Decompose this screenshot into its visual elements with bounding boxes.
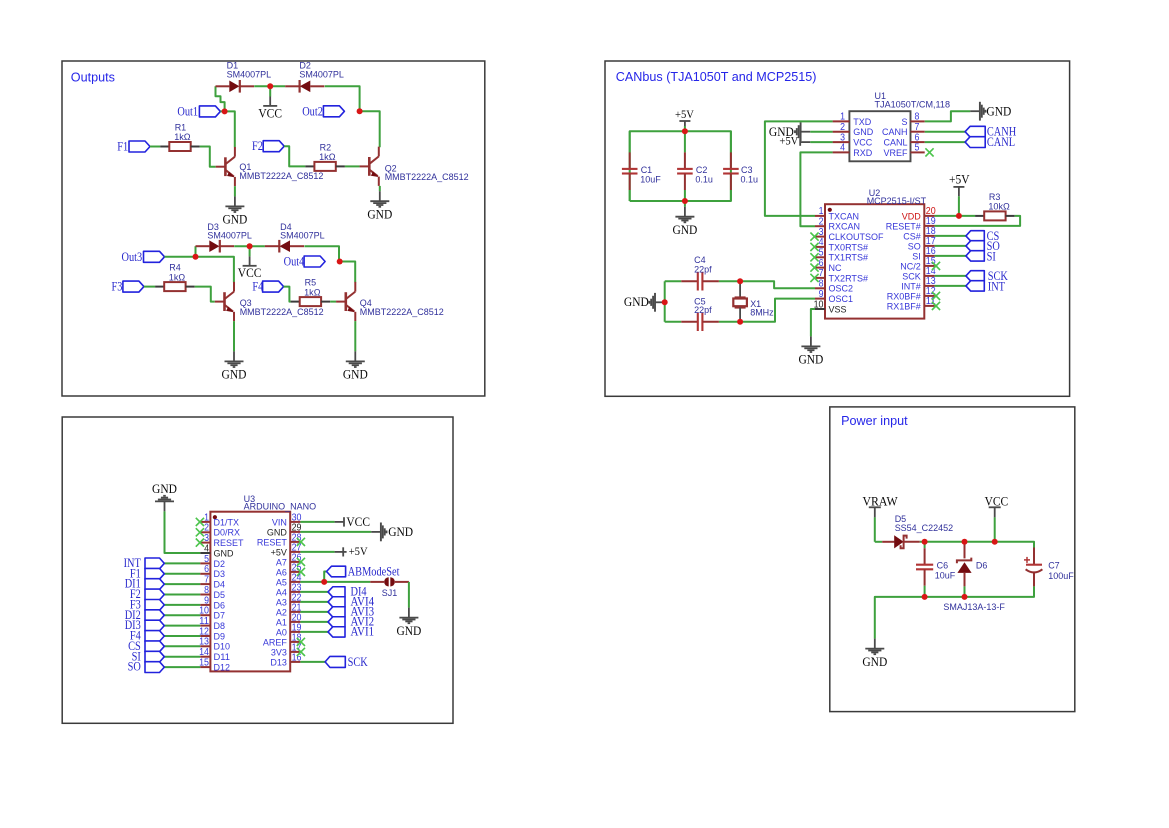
svg-text:GND: GND [222,368,247,382]
svg-text:5: 5 [204,554,209,565]
label DI3 [145,620,164,631]
svg-text:AVI1: AVI1 [351,624,375,639]
junction OSC2 [737,278,743,284]
svg-text:Outputs: Outputs [71,70,115,84]
svg-text:10uF: 10uF [935,571,956,582]
transistor Q2 [360,147,379,186]
svg-text:VSS: VSS [829,304,847,315]
junction GND left [662,299,668,305]
svg-text:Out3: Out3 [122,249,143,264]
svg-text:1kΩ: 1kΩ [169,272,185,283]
ground [225,196,244,212]
wire [345,165,360,167]
svg-text:RXCAN: RXCAN [829,222,861,233]
wire [233,321,235,351]
label F2 [263,141,284,152]
wire VDD [935,215,976,217]
svg-text:0.1u: 0.1u [695,175,713,186]
wire [875,541,882,543]
svg-text:F1: F1 [117,139,128,154]
label F3 [123,281,144,292]
label SCK bottom [325,656,345,667]
svg-text:3: 3 [204,533,209,544]
svg-text:TX0RTS#: TX0RTS# [829,242,869,253]
wire [935,275,966,277]
wire [164,625,200,627]
section box Power input [830,407,1075,712]
wire [284,287,291,302]
svg-text:1kΩ: 1kΩ [304,287,320,298]
capacitor C2 [677,131,693,201]
svg-text:RX1BF#: RX1BF# [887,301,922,312]
label F3 [145,600,164,611]
wire [935,255,966,257]
capacitor C7 polarized [1024,548,1042,587]
svg-text:MMBT2222A_C8512: MMBT2222A_C8512 [240,307,324,318]
svg-text:SS54_C22452: SS54_C22452 [895,523,954,534]
section box Arduino [62,417,453,723]
wire [164,635,200,637]
svg-text:4: 4 [819,237,824,248]
svg-text:10kΩ: 10kΩ [988,202,1009,213]
label CS [145,641,164,652]
label SO [966,241,984,251]
resistor R2 [305,162,345,171]
svg-text:GND: GND [862,655,887,669]
wire [874,517,876,541]
wire [164,645,200,647]
wire [164,604,200,606]
svg-text:VCC: VCC [985,494,1009,508]
diode D5 schottky [882,535,920,548]
resistor R1 [160,142,200,151]
wire [254,85,285,87]
svg-text:4: 4 [840,143,845,154]
svg-text:D8: D8 [214,621,226,632]
label F4 [263,281,284,292]
junction Out3 [193,254,199,260]
junction Out1 [222,108,228,114]
wire R3 to RESET# [935,216,1021,226]
junction D6 bottom [962,594,968,600]
label SO [145,662,164,673]
junction +5V rail [682,128,688,134]
svg-text:GND: GND [798,353,823,367]
label AVI2 [328,617,345,627]
label AVI3 [328,607,345,617]
svg-text:F3: F3 [112,279,123,294]
svg-text:1kΩ: 1kΩ [174,132,190,143]
svg-text:MMBT2222A_C8512: MMBT2222A_C8512 [360,307,444,318]
wire [195,287,215,302]
wire A5 net [300,581,370,583]
wire [958,196,960,216]
wire [164,583,200,585]
svg-text:100uF: 100uF [1048,571,1074,582]
svg-text:10: 10 [814,299,824,310]
junction VCC in [992,539,998,545]
wire [684,201,686,207]
wire [300,621,328,623]
wire [216,86,225,111]
label AVI1 [328,627,345,637]
svg-text:C7: C7 [1048,560,1060,571]
label F4 [145,631,164,642]
wire [664,281,666,322]
wire main rail [920,542,1034,548]
svg-text:7: 7 [204,575,209,586]
capacitor C4 [665,272,740,290]
wire [935,235,966,237]
wire TXD to TXCAN [765,121,833,215]
svg-text:0.1u: 0.1u [741,175,759,186]
ground [346,351,365,367]
IC U2 MCP2515 [814,204,937,318]
diode D2 [285,80,324,93]
wire OSC2 [740,281,815,288]
svg-text:1kΩ: 1kΩ [319,152,335,163]
wire [164,594,200,596]
IC U3 ARDUINO_NANO [199,512,302,674]
junction C6 bottom [922,594,928,600]
svg-text:9: 9 [819,289,824,300]
svg-text:Power input: Power input [841,414,908,428]
svg-text:GND: GND [367,207,392,221]
wire [300,601,328,603]
power VRAW [869,507,881,517]
svg-text:SCK: SCK [348,654,369,669]
svg-text:CANbus (TJA1050T and MCP2515): CANbus (TJA1050T and MCP2515) [616,70,817,84]
power VCC [269,86,271,96]
wire S to GND [925,111,971,121]
svg-text:MCP2515-I/ST: MCP2515-I/ST [867,196,927,207]
wire [200,147,216,167]
svg-text:2: 2 [840,122,845,133]
svg-text:4: 4 [204,543,209,554]
wire [164,562,200,564]
power flag +5V right [335,547,347,556]
svg-text:SI: SI [987,248,996,263]
wire +5V27 [300,551,334,553]
wire [165,257,234,282]
svg-text:D10: D10 [214,642,231,653]
svg-text:7: 7 [819,268,824,279]
svg-text:D2: D2 [214,559,226,570]
svg-text:RXD: RXD [853,148,872,159]
junction VCC rail 2 [247,243,253,249]
wire [164,666,200,668]
svg-text:D12: D12 [214,663,231,674]
svg-text:ABModeSet: ABModeSet [348,563,400,578]
label F1 [129,141,150,152]
wire VIN to VCC [300,521,334,523]
svg-text:F4: F4 [252,279,263,294]
diode D6 zener [957,542,972,597]
wire [164,614,200,616]
svg-text:SJ1: SJ1 [382,588,398,599]
label AVI4 [328,597,345,607]
svg-text:GND: GND [672,223,697,237]
resistor R5 [291,297,331,306]
svg-text:+5V: +5V [949,173,970,187]
wire [150,146,160,148]
svg-text:SM4007PL: SM4007PL [280,231,325,242]
no-connect pins 3-7 [810,233,818,241]
wire [354,321,356,351]
svg-text:2: 2 [819,217,824,228]
svg-text:11: 11 [199,616,209,627]
svg-text:D1/TX: D1/TX [214,517,240,528]
label CANL [965,137,985,148]
ground [399,608,418,624]
svg-text:VREF: VREF [884,148,908,159]
svg-text:14: 14 [199,647,209,658]
wire [300,591,328,593]
wire [284,146,305,166]
svg-text:D11: D11 [214,652,231,663]
no-connect U3 right pins 28 26 25 18 17 [297,538,305,546]
solder jumper SJ1 [370,577,409,586]
svg-text:D6: D6 [976,560,988,571]
svg-text:SMAJ13A-13-F: SMAJ13A-13-F [943,602,1005,613]
power +5V [679,121,690,126]
svg-text:RESET: RESET [214,538,244,549]
svg-text:SM4007PL: SM4007PL [299,69,344,80]
wire RXD to RXCAN [800,152,832,226]
wire [234,186,236,196]
wire [810,141,832,143]
svg-text:VRAW: VRAW [863,494,899,508]
label DI2 [145,610,164,621]
label Out4 [304,256,325,267]
no-connect pins 15 12 11 [932,262,940,270]
junction A5 [321,579,327,585]
svg-text:MMBT2222A_C8512: MMBT2222A_C8512 [385,172,469,183]
IC U1 TJA1050T [833,111,925,161]
svg-text:5: 5 [915,143,920,154]
svg-text:10uF: 10uF [640,175,661,186]
svg-text:ARDUINO_NANO: ARDUINO_NANO [244,501,317,512]
diode D3 [196,240,235,253]
label Out1 [199,106,220,117]
section box CANbus [605,61,1070,396]
svg-text:F2: F2 [252,138,263,153]
svg-text:GND: GND [624,295,649,309]
wire [325,86,360,111]
svg-text:CANH: CANH [882,127,908,138]
svg-text:GND: GND [388,525,413,539]
label Out2 [323,106,344,117]
wire bottom rail [875,586,1034,638]
wire [994,517,996,541]
svg-text:SO: SO [128,659,141,674]
label F1 [145,568,164,579]
svg-text:VCC: VCC [346,515,370,529]
ground [370,191,389,207]
wire D13 [300,661,325,663]
svg-text:CANL: CANL [987,134,1015,149]
svg-text:GND: GND [222,213,247,227]
wire [935,285,966,287]
transistor Q3 [215,282,234,321]
ground [225,351,244,367]
wire [330,301,336,303]
junction C6 [922,539,928,545]
ground [675,207,694,223]
svg-text:1: 1 [204,512,209,523]
wire [360,111,380,147]
svg-text:13: 13 [199,637,209,648]
wire [339,262,355,283]
power VCC [989,507,1001,517]
section box Outputs [62,61,485,396]
wire [164,656,200,658]
wire [408,582,410,608]
svg-text:7: 7 [915,122,920,133]
crystal X1 [733,281,747,322]
svg-text:GND: GND [986,105,1011,119]
junction Out2 [357,108,363,114]
power +5V above R3 [953,187,964,196]
wire [195,246,197,257]
label ABModeSet [327,566,346,577]
svg-text:GND: GND [152,482,177,496]
svg-text:GND: GND [343,368,368,382]
svg-text:D13: D13 [270,657,287,668]
wire [925,131,965,133]
svg-text:GND: GND [396,624,421,638]
junction D6 [962,539,968,545]
svg-text:D7: D7 [214,611,226,622]
junction OSC1 [737,319,743,325]
label CANH [965,126,985,137]
wire [935,245,966,247]
wire [300,611,328,613]
svg-text:OSC1: OSC1 [829,294,854,305]
capacitor C5 [665,313,740,331]
capacitor C6 [916,542,933,597]
wire GND to pin4 [165,511,201,553]
svg-text:SM4007PL: SM4007PL [207,231,252,242]
diode D4 [265,240,304,253]
capacitor C1 [622,131,638,201]
resistor R4 [155,282,195,291]
svg-text:Out2: Out2 [302,104,323,119]
label CS [966,231,984,241]
wire [925,141,965,143]
svg-text:+5V: +5V [675,109,695,121]
power flag GND top right [970,102,985,121]
svg-text:22pf: 22pf [694,264,712,275]
diode D1 [216,80,255,93]
power flag GND right [371,523,386,542]
svg-text:15: 15 [199,658,209,669]
svg-text:22pf: 22pf [694,305,712,316]
capacitor C3 [723,131,739,201]
svg-text:INT: INT [988,278,1005,293]
label SI [145,651,164,662]
ground [801,336,820,352]
label Out3 [144,251,165,262]
svg-text:10: 10 [199,606,209,617]
wire [164,573,200,575]
svg-text:D4: D4 [214,580,226,591]
junction Out4 [337,259,343,265]
label INT [966,281,984,291]
svg-text:GND: GND [853,127,873,138]
svg-text:+5V: +5V [349,546,369,558]
wire [144,286,155,288]
power VCC [249,246,251,256]
svg-text:MMBT2222A_C8512: MMBT2222A_C8512 [239,171,323,182]
no-connect VREF [925,148,933,156]
wire [220,111,234,147]
junction VCC rail [267,83,273,89]
ground [865,639,884,655]
svg-text:GND: GND [214,548,234,559]
wire [304,246,339,261]
svg-text:VCC: VCC [258,106,282,120]
ground inverted top [155,496,174,512]
label SCK [966,271,984,281]
power flag VCC [335,517,344,526]
wire [684,126,686,131]
svg-text:Out4: Out4 [284,254,305,269]
wire OSC1 [740,299,815,322]
wire [324,572,326,582]
label DI1 [145,579,164,590]
wire [630,131,731,201]
transistor Q1 [216,147,235,186]
svg-text:+5V: +5V [779,135,799,147]
resistor R3 [975,211,1015,220]
junction gnd rail [682,198,688,204]
svg-text:TX2RTS#: TX2RTS# [829,273,869,284]
svg-text:D5: D5 [214,590,226,601]
label DI4 [328,587,345,597]
wire GND29 [300,531,371,533]
label F2 [145,589,164,600]
wire [379,186,381,191]
wire VSS to GND [811,309,815,336]
svg-text:8: 8 [204,585,209,596]
wire [810,131,832,133]
label INT [145,558,164,569]
svg-text:TJA1050T/CM,118: TJA1050T/CM,118 [875,100,951,111]
wire [234,245,265,247]
svg-text:Out1: Out1 [177,104,198,119]
no-connect U3 left pins 1-3 [196,518,204,526]
wire [300,631,328,633]
svg-text:8MHz: 8MHz [750,308,774,319]
label SI [966,251,984,261]
transistor Q4 [336,282,355,321]
svg-text:SM4007PL: SM4007PL [227,69,272,80]
junction VDD [956,213,962,219]
